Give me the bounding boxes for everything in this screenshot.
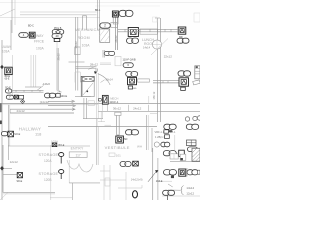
diagonal upper-left [0,9,15,16]
svg-text:156 12: 156 12 [152,91,156,99]
svg-text:8: 8 [125,12,127,16]
wall x8 storage [7,145,9,160]
duct y90 [10,89,44,91]
box beside tags [56,93,60,97]
duct ticks [15,90,17,92]
sqx BO-E [52,143,57,147]
dark wall segment left edge [0,103,2,112]
diffuser pair 101 [120,162,126,167]
vav box tag [52,30,64,35]
svg-text:110-F-1: 110-F-1 [109,100,118,104]
tag box 101 [109,153,115,156]
wall x75 duct chase [75,17,77,91]
dark diamond left wall 1 [0,65,4,69]
stub to SD-E [3,174,17,176]
BD box right [181,87,186,90]
svg-text:14x14: 14x14 [143,45,151,49]
flex duct arc [98,74,110,85]
corridor wall north [0,103,200,105]
corridor cell tick 1 [107,105,109,112]
leader arrow bottom right [148,170,158,182]
svg-text:WAY: WAY [36,34,44,38]
pill pair right B [186,124,193,129]
svg-text:140-E: 140-E [61,95,68,98]
wall x15 [14,0,16,25]
left wall x2 [1,40,3,200]
svg-text:BD: BD [133,88,136,90]
BD box center [128,86,132,89]
small circles right [185,116,201,121]
diffuser pair vestibule [126,130,133,135]
keynote flag 2 [59,170,64,180]
tag 1 right [178,71,185,76]
wall x175 [174,135,176,150]
svg-text:VRF-1.1: VRF-1.1 [155,130,165,134]
svg-text:12x12: 12x12 [186,192,194,196]
svg-text:103A: 103A [82,43,91,47]
column detail circle [152,40,161,49]
diffuser tag 2 [100,23,111,28]
wall x31 [30,55,32,87]
svg-text:14x12(+9): 14x12(+9) [131,178,143,182]
hatched shaft [100,29,110,42]
svg-text:CH-1: CH-1 [170,131,176,134]
svg-text:NO-E: NO-E [14,133,20,136]
svg-text:MECHANICAL: MECHANICAL [75,28,102,32]
EF unit right [187,140,197,146]
svg-text:STORAGE: STORAGE [39,172,59,176]
keynote flag 1 [59,153,64,164]
leader to brace [168,189,180,191]
duct riser [116,115,118,135]
dark pill pair VRF [161,142,166,147]
pills VRF row [154,142,159,147]
svg-text:WH: WH [137,145,142,149]
svg-text:28x12: 28x12 [57,53,61,61]
svg-text:1 2B(1:1: 1 2B(1:1 [155,135,165,139]
svg-text:40: 40 [55,34,59,38]
svg-text:28x12: 28x12 [90,63,99,67]
wall x158 lower [157,158,159,200]
duct drop below tag T1 [113,18,118,25]
wall y162 right [170,161,200,163]
corridor cell tick 2 [128,105,130,112]
damper sq beside 4 [29,32,35,38]
svg-text:SD: SD [124,138,128,141]
wall x69 [68,160,70,183]
door swing lunch [151,39,168,56]
svg-text:120B: 120B [44,178,51,182]
sqx hallway [8,131,14,137]
wall x103 stub [102,50,104,58]
stub to diamond [3,167,12,169]
slot bar center [138,79,150,82]
tag oval hallway [1,132,7,136]
wall x152 lower [152,148,154,200]
diamond symbol on corridor wall [21,99,25,103]
wall x72 [72,183,74,200]
svg-text:ROOM: ROOM [78,36,90,40]
svg-text:-12b/2: -12b/2 [42,82,50,86]
svg-text:8: 8 [132,39,134,43]
equipment tag center-top [128,28,138,37]
wall top band upper [20,11,97,13]
sqx bottom-left [14,95,18,99]
equipment tag center [128,77,137,84]
wall top band lower [20,14,97,16]
stair lines [100,62,111,64]
svg-text:-28x14: -28x14 [105,77,113,81]
svg-text:STORAGE: STORAGE [39,153,59,157]
svg-text:101: 101 [116,153,121,157]
wall x152 [151,128,153,152]
wall y126 [48,125,157,127]
duct elbow down [95,69,97,72]
tag row mid [45,93,51,98]
slot diffuser bar [140,29,158,34]
small room box [115,56,121,66]
svg-text:103A: 103A [2,49,10,53]
duct y67 [76,66,97,68]
svg-text:24x: 24x [57,89,62,93]
svg-text:SD-E: SD-E [17,180,23,183]
svg-text:60-E: 60-E [5,79,10,81]
diagonal bottom-left [0,192,8,200]
room tag 117 box [69,152,87,158]
wall x97 [97,0,99,30]
box bottom-left [19,95,24,99]
wall x84 [83,98,85,119]
wall x146 [145,115,147,150]
riser cap [115,112,121,115]
pill below EF [188,147,198,152]
diffuser 8 [127,38,134,43]
wall y17 [0,17,100,19]
wall x51 [50,145,52,200]
svg-text:24x12: 24x12 [133,106,142,110]
svg-text:28x12: 28x12 [114,35,118,43]
curved entry feature [67,160,93,172]
rect left of vav [74,72,76,83]
wall y183 [69,182,100,184]
wall x157 right [157,18,159,122]
wall x11 [10,20,12,50]
svg-text:VESTIBULE: VESTIBULE [105,145,130,150]
svg-text:BO-E: BO-E [59,144,65,147]
tag 6 [123,63,133,68]
svg-text:BD-C: BD-C [28,25,34,28]
duct arrow 2 [48,105,74,107]
wall y196 right [162,195,200,197]
wall x57 [56,48,58,91]
sqx 101 [133,161,139,166]
svg-text:FFICE: FFICE [34,39,45,43]
tag BD-E sq [5,67,12,74]
duct drop mech room [83,16,87,30]
corridor cell tick 3 [148,105,150,112]
svg-text:36x12: 36x12 [113,106,122,110]
pill pair bottom [163,190,170,195]
tag 7 center [126,72,133,77]
angled unit [193,80,201,85]
svg-text:ENTRY: ENTRY [71,146,84,150]
tag 40 [52,34,62,39]
small box below 40 [54,39,60,42]
equipment tag right [179,78,189,86]
wall y96.6 [75,96,91,98]
wall y198 [50,197,72,199]
pill pair br row2 [164,170,171,175]
pill pair right A [164,124,171,129]
drop from PKG B box [56,42,58,49]
duct to right cluster [153,80,179,82]
tag 5 [5,89,11,93]
sink fixture [105,178,110,186]
faint box right edge [194,13,200,22]
sq tag br row2 [179,169,186,176]
tag 7 bottom-left [6,95,13,99]
svg-text:117: 117 [76,153,81,157]
gridline top [0,2,200,4]
dark diamond left wall 2 [0,166,4,171]
equipment tag vestibule [116,136,124,143]
wall y87 [25,86,41,88]
vestibule wall x97 [96,126,98,165]
diffuser pair top [119,10,127,16]
arrowhead dark [94,71,97,74]
corridor wall south right [98,110,200,112]
svg-text:22x12: 22x12 [164,55,173,59]
svg-text:12x12: 12x12 [10,160,19,164]
pill pair corner top [163,151,170,156]
wc ellipse [133,191,138,198]
damper tag T1 top [112,11,118,17]
equipment tag right-top [178,27,186,34]
dark box corner [179,150,185,156]
hatched equipment pad [192,148,200,161]
duct top right [118,28,178,30]
wall x3 [2,145,4,193]
svg-text:BD-1: BD-1 [95,10,101,12]
tag cluster corridor top [98,95,108,104]
wall y118 [83,118,103,120]
diffuser 1 right [177,38,184,43]
vav unit with damper [81,76,94,96]
wall x80 [79,31,81,55]
svg-text:[14x12: [14x12 [40,100,49,104]
brace [181,186,184,195]
svg-text:110-F-2A/B: 110-F-2A/B [123,58,136,62]
tag 4 [19,33,28,38]
duct riser x115 [115,15,117,50]
box atop wall x75 [75,47,80,55]
svg-text:14x14: 14x14 [186,186,194,190]
faint line y188 [118,187,142,189]
wall y181 right [158,180,172,182]
wall y62 [69,61,85,63]
faint box top right [153,17,158,22]
slot box beside tag 2 [111,23,118,28]
wall y192 [3,191,55,193]
duct arrow 1 [48,100,73,102]
condensing unit right edge [195,66,200,79]
svg-text:118: 118 [35,131,42,136]
pill pair br row2 right [187,170,193,175]
hallway wall x8 [7,105,9,146]
svg-text:103A: 103A [36,47,45,51]
svg-text:36x12: 36x12 [74,41,78,49]
pill pair stair top [104,51,110,55]
svg-text:24x12: 24x12 [17,109,26,113]
svg-text:2: 2 [104,24,106,28]
svg-text:120A: 120A [44,159,52,163]
wall x12 [11,0,13,33]
svg-text:1: 1 [182,39,184,43]
small rect center [88,100,95,102]
svg-text:103-E: 103-E [156,180,163,183]
wall x97 mid [96,73,98,119]
hallway wall south [8,145,90,147]
toilet room wall [103,165,105,200]
duct 24x12 top [10,108,74,110]
sqx SD-E storage [17,173,22,178]
